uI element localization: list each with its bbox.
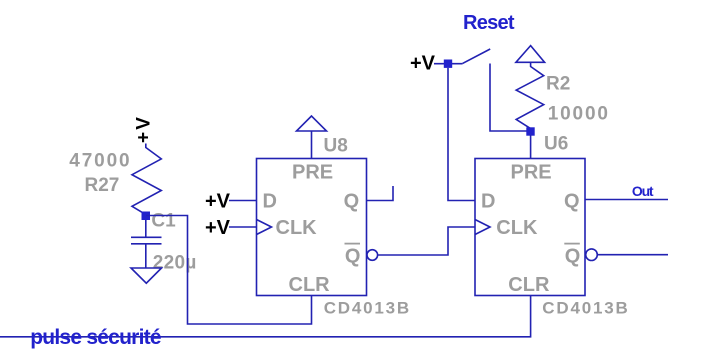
wire switch contact to R2 junction [490,64,527,132]
svg-text:10000: 10000 [548,104,608,125]
resistor R27 [132,144,161,215]
wire C1 junction to U8 CLR [146,216,312,325]
inversion bubble U8 Qbar [367,250,378,261]
svg-text:Reset: Reset [463,12,515,34]
svg-text:+V: +V [134,117,155,143]
power arrow above U8 PRE [297,116,327,159]
wire U6 Qbar output [597,254,668,256]
svg-text:CLR: CLR [289,274,331,296]
svg-text:CLR: CLR [508,274,550,296]
switch blade (Reset) [463,49,491,63]
wire U8 Q stub [367,186,394,201]
svg-text:Q: Q [345,246,361,268]
svg-text:PRE: PRE [511,161,552,183]
overline Qbar (U6) [564,243,580,245]
svg-text:+V: +V [205,217,231,239]
svg-text:CLK: CLK [496,217,538,239]
capacitor C1 [131,220,162,268]
flip-flop U6 [475,159,585,296]
clock wedge U6 [475,220,490,235]
wire U6 CLR to bus [0,296,531,337]
power arrow above R2 [516,46,545,63]
wire U6 Q output [585,199,668,201]
wire +V to U8 CLK [229,226,257,228]
wire +V to U8 D [229,200,257,202]
svg-text:+V: +V [410,53,436,75]
svg-text:U8: U8 [324,135,348,156]
svg-text:Q: Q [564,191,580,213]
svg-text:R2: R2 [546,74,570,95]
svg-text:pulse sécurité: pulse sécurité [30,326,161,349]
node junction R2/U6 PRE [526,127,534,135]
wire +V to switch node [434,63,463,65]
inversion bubble U6 Qbar [586,249,598,261]
node junction +V/switch [444,60,452,68]
flip-flop U8 [257,159,367,296]
resistor R2 [516,62,544,128]
svg-text:R27: R27 [85,175,120,196]
svg-text:D: D [481,191,495,213]
svg-text:Out: Out [632,183,654,199]
svg-text:+V: +V [205,191,231,213]
svg-text:CLK: CLK [276,217,318,239]
svg-text:PRE: PRE [292,161,333,183]
svg-text:U6: U6 [544,133,568,154]
svg-text:D: D [263,191,277,213]
ground [131,268,162,283]
svg-text:47000: 47000 [69,150,129,171]
clock wedge U8 [257,220,272,235]
svg-text:Q: Q [344,191,360,213]
wire U8 Qbar to U6 CLK [378,227,475,255]
svg-text:C1: C1 [151,211,176,232]
wire +V junction to U6 D [448,68,475,201]
overline Qbar (U8) [345,243,361,245]
wire R2 junction to U6 PRE [530,135,532,159]
svg-text:Q: Q [565,246,581,268]
node junction R27/C1 [142,212,151,221]
